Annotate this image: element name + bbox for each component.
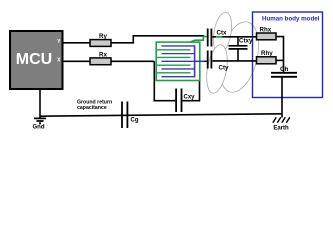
svg-text:Rx: Rx	[99, 51, 107, 58]
svg-text:Ctxy: Ctxy	[239, 37, 253, 44]
resistor Rx	[90, 58, 111, 65]
svg-text:Human body model: Human body model	[262, 16, 320, 23]
capacitor Cg	[121, 102, 123, 129]
hand palm arc	[213, 18, 265, 97]
finger segment lower	[203, 43, 230, 95]
wire: Ry to top rail	[111, 36, 204, 43]
wire: Ctx to Rhx	[212, 36, 256, 38]
svg-text:Ch: Ch	[280, 66, 288, 73]
wire: Cty to Rhy	[212, 60, 256, 62]
green dash on finger wire	[216, 36, 223, 38]
wire: Y pin to Ry	[63, 42, 91, 44]
wire: Cxy right to comb	[182, 81, 199, 101]
human body model box	[253, 12, 323, 98]
capacitor Ctx	[207, 29, 209, 47]
wire: Rhx right	[276, 37, 284, 73]
capacitor Cxy	[175, 89, 177, 113]
svg-text:Rhx: Rhx	[260, 27, 272, 34]
capacitor Ctxy	[237, 37, 239, 46]
svg-text:Earth: Earth	[273, 125, 289, 131]
earth ground symbol	[273, 117, 290, 123]
svg-text:Rhy: Rhy	[261, 50, 273, 57]
wire: Rx to sensor, down to Cxy loop	[111, 61, 175, 100]
MCU block	[10, 31, 63, 89]
svg-text:Cty: Cty	[219, 65, 230, 72]
ground symbol Gnd	[34, 118, 46, 123]
wire: X pin to Rx	[63, 60, 91, 62]
finger segment upper	[210, 11, 234, 55]
wire: Ch down to earth	[281, 77, 283, 118]
sensor electrode: green comb outline	[156, 42, 200, 80]
finger / hand sketch	[203, 11, 265, 96]
blue comb spine	[194, 45, 196, 77]
svg-text:Cxy: Cxy	[184, 95, 196, 101]
resistor Rhx	[257, 33, 277, 40]
capacitor Cty	[207, 51, 209, 69]
resistor Rhy	[257, 57, 277, 64]
blue fingers	[162, 46, 195, 77]
resistor Ry	[90, 40, 111, 47]
blue exit wire to Cty	[195, 60, 205, 62]
svg-text:capacitance: capacitance	[77, 105, 107, 111]
wire: MCU ground down	[39, 89, 41, 118]
svg-text:Ry: Ry	[99, 33, 107, 40]
ground return wire	[40, 114, 282, 116]
svg-text:MCU: MCU	[16, 51, 52, 68]
green tap: comb top to Ctx	[190, 37, 207, 43]
svg-text:Gnd: Gnd	[33, 125, 45, 131]
svg-text:Ctx: Ctx	[217, 29, 228, 36]
wire: Rhy right	[276, 59, 284, 61]
green fingers	[157, 50, 191, 73]
svg-text:Cg: Cg	[131, 118, 139, 124]
